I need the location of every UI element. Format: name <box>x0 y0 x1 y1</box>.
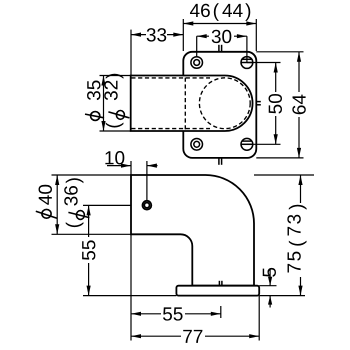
hidden flange edge behind pipe <box>184 78 186 131</box>
dim 75(73) <box>254 174 314 176</box>
dim phi35 (phi32) <box>100 75 131 77</box>
dim phi40 (phi36) <box>52 174 132 176</box>
dim 30 <box>197 35 247 37</box>
dim 46(44) <box>182 19 184 51</box>
hidden bore line bottom <box>131 128 210 130</box>
hole bottom-left <box>191 139 203 151</box>
dim 77 bottom <box>130 318 132 341</box>
dim 55 bottom <box>130 234 132 318</box>
front view: elbow body <box>131 175 254 286</box>
mold ticks right edge <box>256 101 261 103</box>
mold ticks base flange <box>218 281 220 286</box>
hidden bore line top <box>131 77 210 79</box>
dim 10 <box>130 161 132 175</box>
hidden bore circle <box>199 78 250 129</box>
top view: flange plate <box>183 52 256 158</box>
front view: base flange <box>176 286 259 296</box>
dim 64 <box>256 51 303 53</box>
dim 50 <box>247 62 281 64</box>
hole top-right screw <box>241 57 253 69</box>
front view: screw hole <box>143 201 152 210</box>
hole bottom-right screw <box>241 138 253 150</box>
mold ticks top edge <box>218 45 220 52</box>
mold ticks bottom edge <box>218 158 220 165</box>
dim 55 left <box>83 204 131 206</box>
top view: pipe socket body <box>131 76 253 132</box>
dim 5 <box>259 285 276 287</box>
hole top-left <box>191 57 203 69</box>
dim 33 <box>130 30 132 75</box>
